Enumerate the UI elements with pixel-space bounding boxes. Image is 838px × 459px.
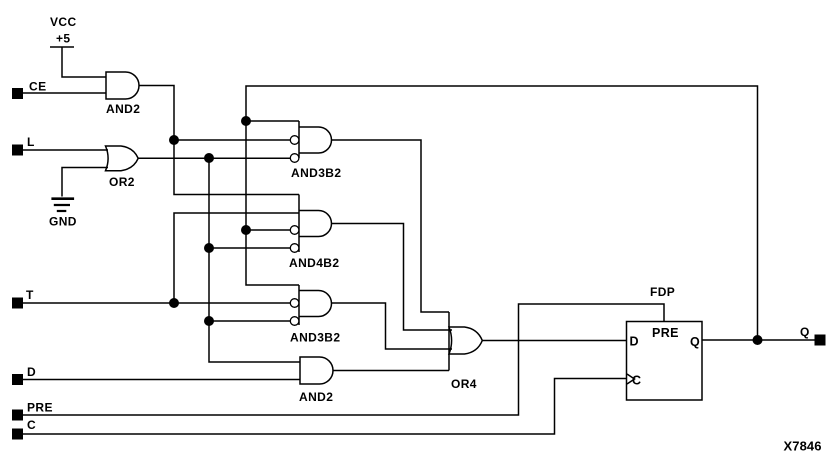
svg-text:C: C: [632, 374, 641, 388]
svg-text:OR2: OR2: [109, 175, 135, 189]
svg-text:AND2: AND2: [106, 102, 140, 116]
svg-text:L: L: [27, 135, 35, 149]
svg-text:GND: GND: [49, 215, 77, 229]
svg-text:AND3B2: AND3B2: [290, 331, 340, 345]
svg-text:+5: +5: [56, 32, 70, 46]
svg-text:X7846: X7846: [784, 439, 822, 454]
svg-text:PRE: PRE: [652, 326, 679, 340]
svg-text:T: T: [26, 288, 34, 302]
svg-text:AND4B2: AND4B2: [289, 256, 339, 270]
svg-text:CE: CE: [29, 80, 46, 94]
svg-text:VCC: VCC: [50, 15, 77, 29]
svg-text:OR4: OR4: [451, 377, 477, 391]
svg-text:D: D: [27, 365, 36, 379]
svg-text:D: D: [630, 335, 639, 349]
svg-text:Q: Q: [690, 335, 700, 349]
svg-text:PRE: PRE: [27, 401, 53, 415]
svg-text:FDP: FDP: [650, 285, 675, 299]
svg-text:AND2: AND2: [299, 390, 333, 404]
svg-text:Q: Q: [800, 325, 810, 339]
svg-text:C: C: [27, 418, 36, 432]
svg-text:AND3B2: AND3B2: [291, 166, 341, 180]
